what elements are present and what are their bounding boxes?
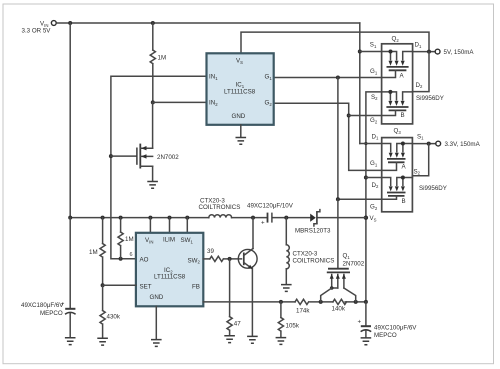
wire G1 IC1 to G1 pkg1 xyxy=(274,77,382,79)
ground 2N7002 left xyxy=(147,182,158,189)
svg-text:140k: 140k xyxy=(332,306,346,313)
svg-text:2N7002: 2N7002 xyxy=(157,154,179,161)
node Q1 right junction xyxy=(354,300,358,304)
inductor CTX20-3 vertical xyxy=(286,218,334,284)
node SW1 riser junction xyxy=(185,216,189,220)
node ILIM riser junction xyxy=(168,216,172,220)
svg-text:3.3 OR 5V: 3.3 OR 5V xyxy=(22,27,52,34)
node 2N7002 gate junction xyxy=(109,154,113,158)
ground vertical coil xyxy=(281,285,292,292)
svg-text:MBRS120T3: MBRS120T3 xyxy=(295,228,331,235)
ground 47 xyxy=(224,336,235,343)
wire G1 branch down to G2 pkg2 xyxy=(338,78,382,200)
svg-text:6: 6 xyxy=(130,252,133,258)
svg-text:ILIM: ILIM xyxy=(163,237,175,244)
svg-text:39: 39 xyxy=(207,248,214,255)
mosfet Q2-A xyxy=(382,50,413,80)
node Vin-left rail junction xyxy=(68,21,72,25)
svg-text:5V, 150mA: 5V, 150mA xyxy=(444,49,475,56)
node 1M2 rail junction xyxy=(119,216,123,220)
capacitor 49XC100uF/6V MEPCO xyxy=(358,302,418,339)
wire Q1 gate drop xyxy=(337,199,339,268)
node G2 pkg1 branch junction xyxy=(347,114,351,118)
svg-text:GND: GND xyxy=(150,294,164,301)
svg-text:49XC100μF/6V: 49XC100μF/6V xyxy=(374,325,417,332)
ground 105k xyxy=(276,338,287,345)
svg-text:Si9956DY: Si9956DY xyxy=(416,95,444,102)
ic U1 LTC1155CS8 xyxy=(207,53,274,125)
resistor 1M top xyxy=(150,23,166,102)
diode MBRS120T3 xyxy=(295,210,331,235)
wire 2N7002 gate xyxy=(111,155,136,157)
svg-text:49XC180μF/6V: 49XC180μF/6V xyxy=(21,302,64,309)
wire D1 pkg1 to 5V terminal xyxy=(413,51,435,53)
svg-text:B: B xyxy=(401,112,405,119)
node AO 1M junction xyxy=(119,257,123,261)
wire S1 pkg2 to 3.3V terminal xyxy=(412,143,435,145)
node IN2 junction xyxy=(151,100,155,104)
svg-text:+: + xyxy=(261,220,265,227)
resistor 105k xyxy=(278,302,300,337)
transistor 2N7002 left xyxy=(137,102,179,181)
svg-text:LT1111CS8: LT1111CS8 xyxy=(224,88,256,95)
node NPN collector junction xyxy=(251,216,255,220)
node VS-D1row crossing dot xyxy=(364,142,367,145)
svg-text:B: B xyxy=(402,198,406,205)
node 5V output junction xyxy=(427,50,431,54)
wire IN1 row to AO net xyxy=(111,76,207,258)
resistor 430k xyxy=(100,285,121,338)
wire D2 pkg2 row xyxy=(366,177,382,179)
svg-text:COILTRONICS: COILTRONICS xyxy=(293,258,335,265)
resistor 39 xyxy=(203,248,241,262)
node G2 pkg2 / Q1 gate junction xyxy=(336,197,340,201)
node G1 branch junction xyxy=(336,76,340,80)
svg-text:49XC120μF/10V: 49XC120μF/10V xyxy=(247,203,294,210)
svg-text:LT1111CS8: LT1111CS8 xyxy=(154,274,186,281)
node SET junction xyxy=(101,283,105,287)
svg-text:CTX20-3: CTX20-3 xyxy=(293,251,318,258)
node VS junction xyxy=(364,216,368,220)
node 1M-430k rail junction xyxy=(101,216,105,220)
wire D2 pkg1 up to 5V node xyxy=(413,52,429,92)
resistor 1M mid (to AO) xyxy=(118,218,134,259)
resistor 140k xyxy=(332,299,347,312)
ic U2 LT1111CS8 xyxy=(136,233,203,306)
wire G2 IC1 to G2 pkg1 and G1 pkg2 xyxy=(274,103,382,170)
mosfet package Q3 Si9956DY xyxy=(370,128,447,212)
wire IN2 row xyxy=(153,101,207,103)
svg-text:1M: 1M xyxy=(125,236,134,243)
wire IC2 top pin risers xyxy=(150,218,187,233)
capacitor 49XC180uF/6V MEPCO xyxy=(21,218,76,338)
ground cap 180uF xyxy=(65,338,76,345)
resistor 47 xyxy=(227,259,241,335)
svg-text:3.3V, 150mA: 3.3V, 150mA xyxy=(445,141,481,148)
mosfet package Q2 Si9956DY xyxy=(370,36,444,125)
wire G2 pkg1 row xyxy=(349,115,382,117)
transistor NPN xyxy=(238,218,257,336)
wire bottom main rail xyxy=(70,217,366,219)
node vertical coil junction xyxy=(284,216,288,220)
svg-text:1M: 1M xyxy=(158,55,167,62)
node S1 pkg1 junction xyxy=(358,50,362,54)
node left rail corner xyxy=(68,216,72,220)
svg-text:MEPCO: MEPCO xyxy=(40,310,63,317)
wire Vin top rail xyxy=(57,22,360,24)
svg-text:SET: SET xyxy=(140,283,152,290)
node 105k junction xyxy=(279,300,283,304)
svg-text:105k: 105k xyxy=(286,323,300,330)
wire left rail down xyxy=(69,23,71,218)
wire right rail down (Vin to D1 row pkg2) xyxy=(359,23,361,144)
mosfet Q3-A xyxy=(382,142,413,171)
svg-text:Si9956DY: Si9956DY xyxy=(419,185,447,192)
svg-text:174k: 174k xyxy=(296,308,310,315)
capacitor 49XC120uF/10V xyxy=(247,203,294,227)
ground 430k xyxy=(97,338,108,345)
node base-47 junction xyxy=(228,257,232,261)
svg-text:2N7002: 2N7002 xyxy=(343,261,365,268)
wire S2 pkg2 up to 3.3V node xyxy=(412,144,428,176)
node VIN riser junction xyxy=(148,216,152,220)
wire VS riser IC1 to 5V node xyxy=(241,32,429,53)
inductor CTX20-3 horizontal xyxy=(199,198,241,218)
resistor 1M left xyxy=(89,218,105,286)
ground cap 100uF xyxy=(361,338,372,345)
svg-text:1M: 1M xyxy=(89,249,98,256)
terminal 3.3V output xyxy=(436,141,481,148)
node VS-FB row junction xyxy=(364,300,368,304)
terminal Vin xyxy=(22,21,57,35)
svg-text:GND: GND xyxy=(232,113,246,120)
terminal 5V output xyxy=(435,49,474,56)
svg-text:COILTRONICS: COILTRONICS xyxy=(199,204,241,211)
transistor Q1 2N7002 xyxy=(321,253,365,302)
mosfet Q2-B xyxy=(382,90,413,119)
svg-text:430k: 430k xyxy=(107,314,121,321)
ground IC1 xyxy=(236,138,247,145)
ground NPN emitter xyxy=(247,336,258,343)
mosfet Q3-B xyxy=(382,176,413,206)
node Q1 left junction xyxy=(319,300,323,304)
resistor 174k xyxy=(295,299,310,314)
wire IC2 GND stem xyxy=(155,306,157,339)
ground IC2 xyxy=(151,340,162,347)
wire FB row xyxy=(203,301,366,303)
node top 1M junction xyxy=(151,21,155,25)
wire S2 pkg1 / VS vertical xyxy=(366,92,382,302)
wire SET row xyxy=(103,284,136,286)
wire D1 row pkg2 xyxy=(360,143,382,145)
svg-text:MEPCO: MEPCO xyxy=(374,332,397,339)
node 3.3V output junction xyxy=(427,142,431,146)
svg-text:47: 47 xyxy=(234,321,241,328)
wire S1 row into pkg1 xyxy=(360,51,382,53)
node D2 pkg2 junction xyxy=(364,176,368,180)
svg-text:FB: FB xyxy=(192,283,200,290)
svg-text:AO: AO xyxy=(140,256,149,263)
svg-text:+: + xyxy=(358,319,362,326)
wire IC1 GND stem xyxy=(240,125,242,137)
